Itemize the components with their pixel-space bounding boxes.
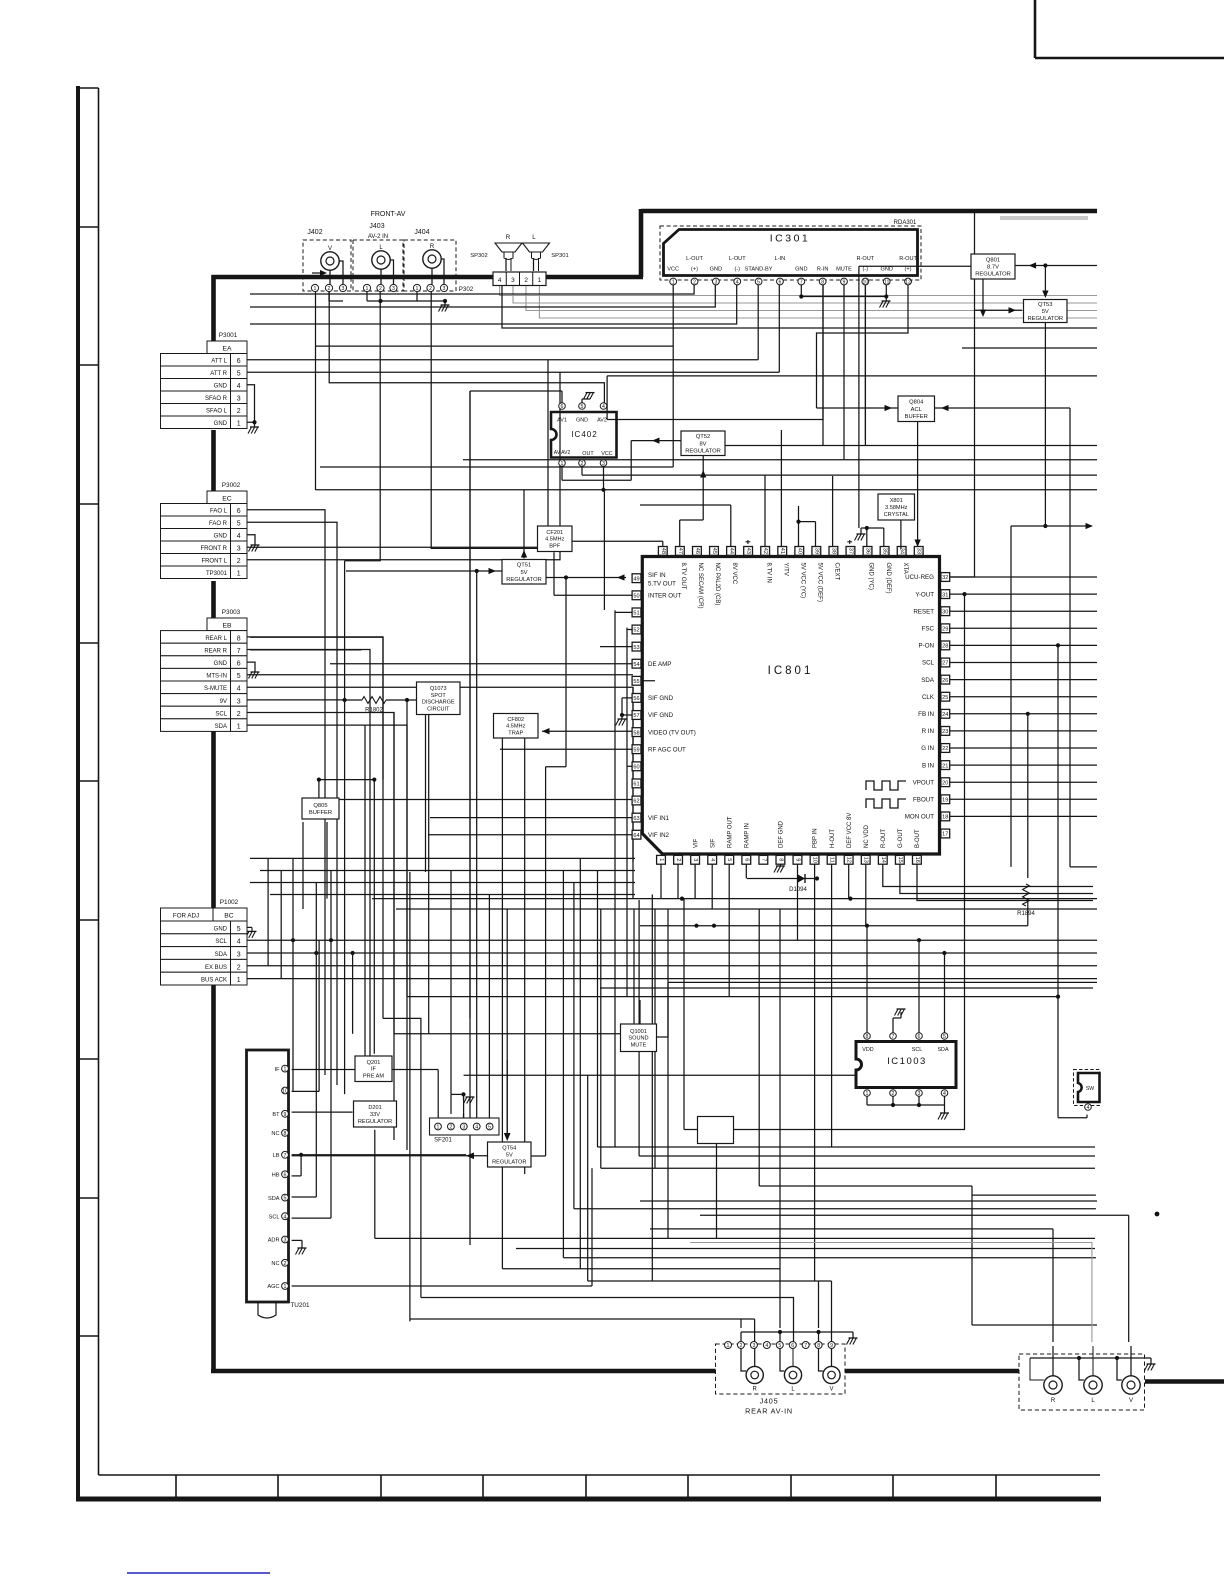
svg-text:4: 4 (709, 858, 715, 861)
wire IC801 pin42 (764, 475, 766, 548)
svg-text:52: 52 (633, 628, 639, 634)
svg-text:GND (YC): GND (YC) (868, 563, 874, 590)
connector P3002 rows (161, 504, 248, 579)
svg-text:54: 54 (633, 662, 639, 668)
wire (677, 864, 679, 899)
svg-text:49: 49 (633, 576, 639, 582)
svg-text:REAR R: REAR R (204, 648, 227, 654)
svg-text:1: 1 (366, 286, 369, 292)
svg-text:5: 5 (237, 521, 241, 528)
connector P3003 rows (161, 631, 248, 732)
wire UCU-REG stub (950, 576, 975, 578)
svg-text:OUT: OUT (582, 451, 594, 457)
resistor R1894 (1017, 884, 1035, 917)
svg-text:1: 1 (416, 286, 419, 292)
speaker SP302 horn (495, 243, 522, 252)
wire gnd EC (249, 545, 260, 552)
svg-text:15: 15 (897, 857, 903, 863)
svg-text:43: 43 (745, 548, 751, 554)
svg-text:6: 6 (237, 508, 241, 515)
wire (950, 764, 1097, 766)
svg-text:SPOT: SPOT (431, 693, 447, 699)
svg-text:1: 1 (284, 1284, 287, 1290)
svg-text:6: 6 (237, 358, 241, 365)
svg-text:8.7V: 8.7V (987, 265, 999, 271)
wire (502, 286, 1097, 329)
svg-text:VIF IN2: VIF IN2 (648, 832, 670, 839)
wire mesh h996 (407, 996, 1058, 998)
svg-text:EB: EB (222, 623, 232, 630)
thick block border top (641, 209, 1097, 277)
page border frame (left ruler) (76, 86, 1101, 1501)
svg-text:GND: GND (880, 267, 892, 273)
rear AV V jack (1122, 1376, 1140, 1394)
svg-text:13: 13 (863, 857, 869, 863)
wire J405 bus feeds (741, 909, 819, 1328)
wire pin12 down (848, 864, 850, 899)
svg-text:QT52: QT52 (696, 434, 711, 440)
svg-text:41: 41 (779, 548, 785, 554)
svg-text:TU201: TU201 (290, 1302, 310, 1309)
wire Q805 net (317, 778, 377, 799)
svg-text:IC1003: IC1003 (887, 1056, 927, 1067)
svg-text:9: 9 (843, 280, 846, 286)
svg-text:2: 2 (581, 461, 584, 467)
svg-text:J405: J405 (760, 1397, 779, 1406)
svg-text:5V: 5V (520, 570, 527, 576)
wire (247, 510, 325, 1075)
svg-text:EA: EA (222, 346, 232, 353)
svg-text:11: 11 (829, 857, 835, 863)
wire mesh h1018 (383, 1018, 421, 1297)
svg-text:1: 1 (237, 421, 241, 428)
svg-text:4: 4 (498, 277, 502, 284)
svg-text:1: 1 (237, 724, 241, 731)
wire (247, 371, 779, 373)
svg-text:55: 55 (633, 679, 639, 685)
wire pin58 to CF802 (542, 728, 632, 734)
wire CF201 to IC801 pin48 (570, 541, 662, 548)
wire IC801 pin33 from Q804 (914, 422, 920, 548)
IC301 pins 1-12 (670, 278, 912, 286)
svg-text:NC PAL2D (CB): NC PAL2D (CB) (714, 563, 720, 606)
svg-text:63: 63 (633, 816, 639, 822)
wire (950, 610, 1097, 612)
svg-text:NC SECAM (CR): NC SECAM (CR) (697, 563, 703, 609)
svg-text:7: 7 (800, 280, 803, 286)
wire speaker lines from P302 (500, 286, 1097, 319)
svg-text:5V: 5V (1042, 309, 1049, 315)
svg-text:MUTE: MUTE (631, 1043, 647, 1049)
svg-text:G-OUT: G-OUT (898, 828, 904, 848)
svg-text:62: 62 (633, 799, 639, 805)
wire (247, 535, 255, 545)
svg-text:ATT L: ATT L (211, 359, 227, 365)
svg-text:Q801: Q801 (986, 257, 1000, 263)
wire (502, 1268, 780, 1270)
svg-text:CIRCUIT: CIRCUIT (427, 706, 450, 712)
wire TU201 LB HB (292, 1153, 466, 1176)
J402 video arrow (312, 272, 325, 274)
svg-text:R1894: R1894 (1017, 911, 1035, 917)
wire (574, 1208, 1096, 1210)
wire Y-OUT branch down (964, 594, 966, 1129)
svg-text:61: 61 (633, 782, 639, 788)
svg-text:6: 6 (561, 404, 564, 410)
wire (607, 375, 1097, 377)
svg-text:5: 5 (778, 1343, 781, 1349)
wire QT53 output (962, 323, 1097, 527)
wire (431, 292, 537, 549)
wire gnd EA (247, 420, 259, 433)
svg-text:MTS-IN: MTS-IN (206, 674, 227, 680)
J405 dashed box (716, 1344, 846, 1394)
svg-text:22: 22 (942, 746, 948, 752)
svg-text:57: 57 (633, 713, 639, 719)
X801 to pin34 wire (900, 520, 902, 549)
svg-text:PRE AM: PRE AM (363, 1074, 384, 1080)
svg-text:L-OUT: L-OUT (729, 256, 746, 262)
IC402 body (551, 412, 617, 458)
svg-text:5: 5 (488, 1125, 491, 1131)
pin37 tick (849, 540, 851, 544)
svg-text:33: 33 (916, 548, 922, 554)
svg-text:BUS ACK: BUS ACK (201, 978, 227, 984)
wire (950, 627, 1097, 629)
svg-text:R1802: R1802 (365, 708, 383, 714)
wire (247, 699, 345, 701)
svg-text:D201: D201 (368, 1105, 381, 1111)
svg-text:SDA: SDA (215, 724, 227, 730)
svg-text:AGC: AGC (267, 1284, 279, 1290)
wire R feed (650, 1229, 1053, 1342)
J405 V jack (823, 1366, 840, 1383)
svg-text:ADR: ADR (268, 1238, 280, 1244)
J405 top bus wire (741, 1330, 858, 1345)
wire (660, 864, 662, 899)
SW pin 4 (1085, 1104, 1092, 1111)
wire (972, 1194, 1096, 1196)
ghost marks under border (1000, 216, 1088, 220)
svg-text:2: 2 (524, 277, 528, 284)
svg-text:GND: GND (214, 421, 228, 427)
svg-text:4: 4 (475, 1125, 478, 1131)
svg-text:29: 29 (942, 627, 948, 633)
svg-text:5.TV OUT: 5.TV OUT (648, 581, 676, 588)
connector P3003 header EB (207, 618, 247, 631)
wire right col h1147 (598, 871, 1096, 1148)
svg-text:Q201: Q201 (367, 1060, 381, 1066)
svg-text:PBP IN: PBP IN (813, 828, 819, 848)
svg-text:STAND-BY: STAND-BY (745, 267, 773, 273)
wire IC801 pin44 supply (640, 505, 731, 548)
svg-text:3: 3 (237, 546, 241, 553)
wire (950, 730, 1097, 732)
buffer Q804 (898, 396, 935, 422)
svg-text:DEF VCC 8V: DEF VCC 8V (847, 813, 853, 848)
svg-text:VPOUT: VPOUT (913, 779, 935, 786)
svg-text:2: 2 (237, 558, 241, 565)
svg-text:FOR ADJ: FOR ADJ (173, 913, 199, 920)
wire (396, 908, 1097, 910)
svg-text:X801: X801 (890, 498, 903, 504)
svg-text:26: 26 (942, 678, 948, 684)
svg-text:CLK: CLK (922, 694, 935, 701)
wire interface box left (684, 899, 698, 1130)
svg-text:SF201: SF201 (434, 1138, 452, 1144)
svg-text:(+): (+) (691, 267, 698, 273)
wire Q801 branch down (980, 279, 986, 317)
wire (329, 292, 604, 403)
wire (728, 864, 730, 997)
wire IC801 pin41 (780, 430, 782, 548)
svg-text:GND: GND (214, 926, 228, 932)
svg-text:8: 8 (284, 1131, 287, 1137)
svg-text:(+): (+) (905, 267, 912, 273)
svg-text:VCC: VCC (601, 451, 612, 457)
J402 dashed box (303, 240, 351, 291)
wire mesh h1075 (464, 1074, 855, 1076)
svg-text:NC: NC (271, 1131, 279, 1137)
revision underline bottom left (127, 1572, 270, 1574)
svg-text:39: 39 (813, 548, 819, 554)
wire QT53 branch arrow (1011, 523, 1093, 867)
connector P1002 header FOR ADJ / BC (161, 908, 248, 921)
wire Q804 left arrow (817, 405, 899, 411)
wire R1802 branch down (344, 561, 346, 1094)
svg-text:P-ON: P-ON (919, 643, 934, 650)
svg-text:SCL: SCL (215, 939, 227, 945)
switch SW body (1078, 1073, 1100, 1102)
svg-text:R-IN: R-IN (817, 267, 829, 273)
wire (843, 285, 845, 460)
crystal X801 (878, 494, 915, 520)
front-av ground jumper wires (329, 292, 417, 301)
wire SDA row (247, 951, 1097, 955)
connector P3001 header EA (207, 341, 247, 354)
svg-text:RF AGC OUT: RF AGC OUT (648, 746, 686, 753)
svg-text:VDD: VDD (862, 1047, 873, 1053)
rear AV L jack (1084, 1376, 1102, 1394)
regulator QT51 (502, 560, 546, 585)
wire (950, 798, 1097, 800)
svg-text:SDA: SDA (921, 677, 935, 684)
IC801 FBOUT squarewave glyph (866, 799, 906, 808)
J404 jack stub wires (432, 259, 444, 284)
svg-text:ATT R: ATT R (210, 371, 227, 377)
svg-text:6: 6 (791, 1343, 794, 1349)
wire IC801 pin36 35 gnd (855, 526, 884, 549)
wire pin6 to D1094 (745, 864, 747, 879)
thick block border left vertical bus (212, 275, 644, 1373)
svg-text:5: 5 (284, 1196, 287, 1202)
svg-text:CF802: CF802 (507, 717, 524, 723)
svg-text:6: 6 (284, 1172, 287, 1178)
svg-text:31: 31 (942, 592, 948, 598)
svg-text:RDA301: RDA301 (894, 220, 917, 226)
svg-text:6: 6 (237, 661, 241, 668)
svg-text:4: 4 (943, 1091, 946, 1097)
wire (950, 815, 1097, 817)
svg-text:QT53: QT53 (1038, 302, 1053, 308)
svg-text:B-OUT: B-OUT (915, 829, 921, 848)
wire (421, 1297, 794, 1299)
wire IC801 pin38 c/ext (832, 476, 834, 548)
wire J405 pin6 feed (793, 1298, 795, 1342)
svg-text:REAR AV-IN: REAR AV-IN (745, 1407, 793, 1416)
J402 jack stub wires (330, 261, 343, 284)
wire R1894 net branch (1026, 712, 1030, 926)
svg-text:TP3001: TP3001 (206, 571, 228, 577)
IC801 right pins 32-17 (941, 573, 950, 838)
wire (778, 285, 780, 372)
wire (950, 781, 1097, 783)
svg-text:GND: GND (214, 661, 228, 667)
svg-text:16: 16 (914, 857, 920, 863)
svg-text:8: 8 (866, 1034, 869, 1040)
svg-text:1: 1 (437, 1125, 440, 1131)
svg-text:2: 2 (429, 286, 432, 292)
svg-text:SDA: SDA (937, 1047, 948, 1053)
svg-text:5V VCC (YC): 5V VCC (YC) (799, 563, 805, 599)
wire Q801 left branch (859, 266, 971, 528)
wire TU201 AGC pin (292, 1168, 592, 1286)
IC1003 bottom pins 1 2 3 4 (864, 1090, 948, 1097)
svg-text:NC: NC (271, 1261, 279, 1267)
svg-text:8: 8 (817, 1343, 820, 1349)
svg-text:9: 9 (794, 858, 800, 861)
svg-text:L-OUT: L-OUT (686, 256, 703, 262)
svg-text:3: 3 (237, 698, 241, 705)
resistor R1802 (362, 697, 386, 704)
svg-text:(-): (-) (734, 267, 740, 273)
wire QT51 to IC801 pin49 (545, 574, 626, 1156)
svg-text:FAO L: FAO L (210, 509, 228, 515)
svg-text:SIF IN: SIF IN (648, 572, 666, 579)
svg-text:GND (DEF): GND (DEF) (885, 563, 891, 594)
wire (865, 864, 867, 926)
svg-text:LB: LB (273, 1153, 280, 1159)
svg-text:2: 2 (237, 964, 241, 971)
svg-text:REAR L: REAR L (205, 636, 227, 642)
svg-text:4: 4 (765, 1343, 768, 1349)
svg-text:1: 1 (314, 286, 317, 292)
svg-text:REGULATOR: REGULATOR (506, 577, 542, 583)
svg-text:8V: 8V (699, 441, 706, 447)
IC1003 pin8 feed (866, 926, 868, 1033)
svg-text:7: 7 (892, 1034, 895, 1040)
J404 pins 1 2 3 (413, 284, 447, 292)
wire Q1001 left (639, 1000, 641, 1024)
svg-text:G IN: G IN (921, 745, 934, 752)
wire (410, 1318, 755, 1320)
IC801 right pin labels (905, 574, 935, 820)
wire RGB out (883, 864, 1093, 901)
wire QT51 top (521, 490, 527, 558)
adjacent sheet corner mark top-right (1035, 0, 1224, 58)
svg-text:EC: EC (222, 496, 232, 503)
wire (607, 285, 823, 420)
wire (822, 285, 824, 446)
svg-text:2: 2 (237, 408, 241, 415)
svg-text:SIF: SIF (710, 838, 716, 848)
svg-text:Q1001: Q1001 (630, 1029, 647, 1035)
svg-text:4: 4 (602, 404, 605, 410)
wire J405 pin9 feed (831, 1281, 833, 1341)
svg-text:5V VCC (DEF): 5V VCC (DEF) (817, 563, 823, 602)
svg-text:5: 5 (581, 404, 584, 410)
J403 pins 1 2 3 (363, 284, 397, 292)
IC801 bottom pins 1-16 (657, 855, 922, 864)
svg-text:1: 1 (561, 461, 564, 467)
svg-text:VIF IN1: VIF IN1 (648, 815, 670, 822)
svg-text:MUTE: MUTE (836, 267, 852, 273)
IC801 top pin labels (680, 563, 908, 609)
wire (950, 644, 1097, 646)
svg-text:9: 9 (284, 1112, 287, 1118)
wire (950, 713, 1097, 715)
svg-text:IC301: IC301 (770, 233, 811, 245)
wire (672, 285, 674, 467)
svg-text:3.58MHz: 3.58MHz (885, 505, 908, 511)
svg-text:1: 1 (237, 977, 241, 984)
wire (606, 376, 608, 420)
svg-text:27: 27 (942, 661, 948, 667)
svg-text:34: 34 (899, 548, 905, 554)
svg-text:4: 4 (736, 280, 739, 286)
svg-text:18: 18 (942, 815, 948, 821)
svg-text:5: 5 (237, 926, 241, 933)
QT54 top arrow wire (504, 1060, 511, 1141)
IC301 pin 7 gnd net wire (799, 285, 890, 308)
svg-text:P3002: P3002 (222, 482, 241, 489)
wire pin56 57 gnd (616, 698, 632, 726)
TU201 pins (267, 1065, 288, 1290)
svg-text:SCL: SCL (215, 711, 227, 717)
svg-text:5: 5 (726, 858, 732, 861)
svg-text:FAO R: FAO R (209, 521, 228, 527)
svg-text:V: V (829, 1387, 833, 1393)
svg-text:GND: GND (710, 267, 722, 273)
wire IC801 left pins (330, 595, 655, 834)
svg-text:VIF: VIF (693, 838, 699, 848)
wire vertical bundle left (268, 391, 668, 1321)
J405 R jack (746, 1366, 763, 1383)
svg-text:EX BUS: EX BUS (205, 965, 227, 971)
svg-text:7: 7 (760, 858, 766, 861)
diode D1094 (747, 874, 819, 893)
svg-text:P1002: P1002 (220, 899, 239, 906)
svg-text:21: 21 (942, 763, 948, 769)
svg-text:3: 3 (602, 461, 605, 467)
svg-text:2: 2 (328, 286, 331, 292)
buffer Q805 (302, 798, 339, 819)
svg-text:QT51: QT51 (517, 563, 532, 569)
wire (247, 385, 255, 427)
wire IC402 pin2 out (582, 466, 1097, 475)
SP301 pin wires (534, 258, 539, 271)
svg-text:VIF GND: VIF GND (648, 712, 674, 719)
wire (375, 1237, 1095, 1239)
svg-text:DE AMP: DE AMP (648, 661, 671, 668)
svg-text:R: R (1051, 1398, 1056, 1404)
svg-text:DEF GND: DEF GND (779, 820, 785, 848)
svg-text:L: L (532, 234, 536, 241)
IC1003 pin7 ground (893, 1009, 906, 1033)
wire (950, 696, 1097, 698)
wire (247, 360, 548, 548)
svg-text:TRAP: TRAP (508, 731, 523, 737)
